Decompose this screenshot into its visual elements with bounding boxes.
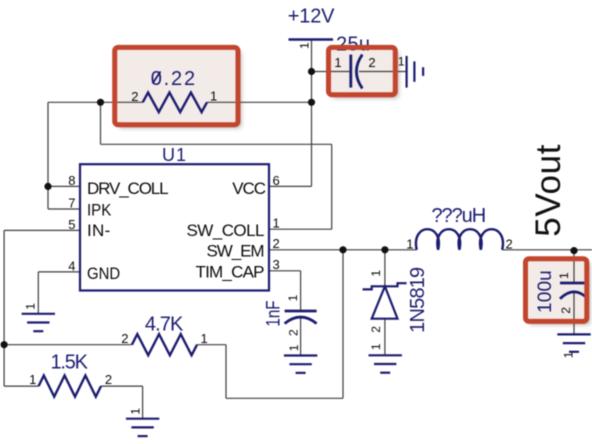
svg-text:2: 2 bbox=[506, 236, 513, 251]
wire 1nF to ground bbox=[300, 318, 302, 355]
svg-text:6: 6 bbox=[273, 173, 280, 188]
capacitor 100u curved plate bbox=[560, 292, 588, 299]
svg-text:8: 8 bbox=[68, 173, 75, 188]
svg-text:1: 1 bbox=[406, 236, 413, 251]
svg-text:1: 1 bbox=[369, 343, 383, 350]
svg-text:1: 1 bbox=[287, 344, 301, 351]
svg-text:2: 2 bbox=[559, 307, 573, 314]
junction node 4.7K left bbox=[1, 341, 8, 348]
svg-text:1: 1 bbox=[273, 216, 280, 231]
wire 0.22 left bbox=[48, 101, 143, 103]
svg-text:2: 2 bbox=[105, 372, 112, 387]
resistor 4.7K zigzag bbox=[132, 334, 197, 355]
wire down to 1nF bbox=[300, 271, 302, 311]
svg-text:2: 2 bbox=[131, 89, 138, 104]
resistor R 0.22 zigzag bbox=[143, 93, 207, 113]
capacitor 25u curved plate bbox=[356, 55, 362, 89]
highlight box fill R1 bbox=[115, 47, 238, 124]
svg-text:3: 3 bbox=[273, 257, 280, 272]
inductor L ???uH coils bbox=[416, 229, 503, 250]
svg-text:1: 1 bbox=[561, 351, 575, 358]
diode D1 triangle bbox=[372, 286, 398, 318]
svg-text:1.5K: 1.5K bbox=[51, 352, 89, 374]
svg-text:2: 2 bbox=[286, 329, 300, 336]
wire SW_EM pin2 to inductor bbox=[269, 249, 417, 251]
highlight box shadow R1 bbox=[118, 51, 241, 128]
svg-text:1: 1 bbox=[298, 42, 312, 49]
svg-text:100u: 100u bbox=[535, 270, 556, 313]
wire vertical to SW_COLL bbox=[331, 144, 333, 229]
svg-text:IPK: IPK bbox=[87, 201, 112, 220]
power symbol +12V bar bbox=[289, 38, 334, 41]
svg-text:1: 1 bbox=[210, 89, 217, 104]
svg-text:7: 7 bbox=[68, 196, 75, 211]
highlight box border C 100u bbox=[526, 259, 587, 322]
capacitor 100u plate bbox=[560, 282, 588, 285]
highlight box fill C 100u bbox=[526, 259, 587, 322]
svg-text:???uH: ???uH bbox=[432, 205, 487, 227]
svg-text:1: 1 bbox=[398, 55, 405, 69]
wire VCC pin6 horizontal bbox=[269, 185, 312, 187]
wire pin7 bbox=[48, 208, 80, 210]
capacitor 1nF curved plate bbox=[285, 317, 317, 324]
ground at 1nF bbox=[284, 356, 317, 373]
junction node pin8 bbox=[44, 183, 51, 190]
resistor 1.5K zigzag bbox=[39, 376, 101, 397]
svg-text:1N5819: 1N5819 bbox=[407, 267, 429, 333]
junction node SW_EM / diode bbox=[381, 246, 388, 253]
wire 4.7K loop up to SW_EM bbox=[342, 250, 344, 398]
svg-text:2: 2 bbox=[273, 236, 280, 251]
ground (rotated) at 25u bbox=[407, 56, 424, 88]
wire IN- pin5 bbox=[4, 229, 80, 231]
svg-text:1: 1 bbox=[557, 272, 571, 279]
wire inductor to right edge bbox=[502, 249, 592, 251]
ground at diode bbox=[369, 355, 402, 372]
wire 25u cap to right ground bbox=[359, 71, 407, 73]
svg-text:2: 2 bbox=[368, 55, 375, 70]
svg-text:5: 5 bbox=[68, 217, 75, 232]
svg-text:1: 1 bbox=[29, 372, 36, 387]
svg-text:VCC: VCC bbox=[232, 179, 266, 198]
wire horizontal above U1 bbox=[101, 143, 332, 145]
wire pin4 down to ground bbox=[37, 272, 39, 314]
svg-text:1: 1 bbox=[201, 331, 208, 346]
wire 4.7K loop down bbox=[225, 345, 227, 399]
wire 4.7K right bbox=[197, 344, 226, 346]
ground at U1 pin4 bbox=[22, 314, 55, 331]
svg-text:1: 1 bbox=[128, 408, 142, 415]
ground at 100u bbox=[557, 334, 590, 351]
junction node 5Vout / 100u bbox=[570, 247, 577, 254]
wire +12V rail vertical bbox=[311, 40, 313, 187]
junction node at 0.22 left bbox=[97, 99, 104, 106]
wire 100u to ground bbox=[573, 291, 575, 334]
junction node rail/0.22 bbox=[308, 99, 315, 106]
wire SW_COLL pin1 bbox=[269, 228, 332, 230]
ground at 1.5K bbox=[126, 419, 159, 436]
svg-text:0.22: 0.22 bbox=[151, 68, 195, 90]
diode D1 1N5819 schottky cathode bbox=[363, 283, 407, 289]
wire left vertical to pins 8,7 bbox=[47, 102, 49, 209]
wire 0.22 right bbox=[207, 101, 312, 103]
svg-text:2: 2 bbox=[121, 331, 128, 346]
svg-text:SW_EM: SW_EM bbox=[207, 242, 265, 261]
svg-text:4: 4 bbox=[68, 259, 75, 274]
highlight box shadow C 100u bbox=[529, 262, 590, 325]
highlight box border R1 bbox=[115, 47, 238, 124]
wire node to 100u bbox=[573, 251, 575, 283]
svg-text:U1: U1 bbox=[162, 145, 186, 165]
wire GND pin4 bbox=[38, 271, 80, 273]
svg-text:25u: 25u bbox=[336, 34, 370, 56]
svg-text:4.7K: 4.7K bbox=[145, 313, 184, 335]
wire far-left vertical bbox=[3, 230, 5, 386]
svg-text:IN-: IN- bbox=[87, 221, 110, 240]
highlight box fill C 25u bbox=[329, 47, 396, 94]
svg-text:5Vout: 5Vout bbox=[529, 144, 568, 236]
svg-text:TIM_CAP: TIM_CAP bbox=[196, 263, 265, 282]
wire to 25u cap plate bbox=[312, 71, 351, 73]
wire 1.5K to ground bbox=[142, 386, 144, 419]
capacitor 1nF plate bbox=[285, 310, 317, 313]
svg-text:DRV_COLL: DRV_COLL bbox=[87, 179, 169, 198]
svg-text:1: 1 bbox=[334, 55, 341, 70]
junction node SW_EM / 4.7K bbox=[339, 246, 346, 253]
wire diode cathode bbox=[384, 250, 386, 286]
op-amp U1 IC box bbox=[80, 164, 269, 290]
wire diode anode to ground bbox=[384, 319, 386, 356]
svg-text:1: 1 bbox=[24, 303, 38, 310]
wire 4.7K loop bottom bbox=[226, 397, 343, 399]
wire 4.7K left bbox=[4, 344, 132, 346]
svg-text:1nF: 1nF bbox=[262, 300, 284, 326]
svg-text:1: 1 bbox=[286, 294, 300, 301]
junction node rail/25u bbox=[308, 68, 315, 75]
wire pin8 bbox=[48, 185, 80, 187]
capacitor 25u plate bbox=[349, 55, 352, 88]
wire TIM_CAP pin3 bbox=[269, 270, 301, 272]
svg-text:GND: GND bbox=[87, 265, 120, 283]
svg-text:+12V: +12V bbox=[288, 5, 335, 27]
wire 1.5K left bbox=[4, 385, 39, 387]
highlight box shadow C 25u bbox=[332, 51, 399, 98]
svg-text:1: 1 bbox=[369, 270, 383, 277]
highlight box border C 25u bbox=[329, 47, 396, 94]
svg-text:SW_COLL: SW_COLL bbox=[187, 221, 265, 240]
wire from 0.22 node down bbox=[100, 102, 102, 144]
value label 0.22 slash bbox=[153, 72, 161, 84]
wire 1.5K right bbox=[101, 385, 143, 387]
svg-text:2: 2 bbox=[369, 326, 383, 333]
